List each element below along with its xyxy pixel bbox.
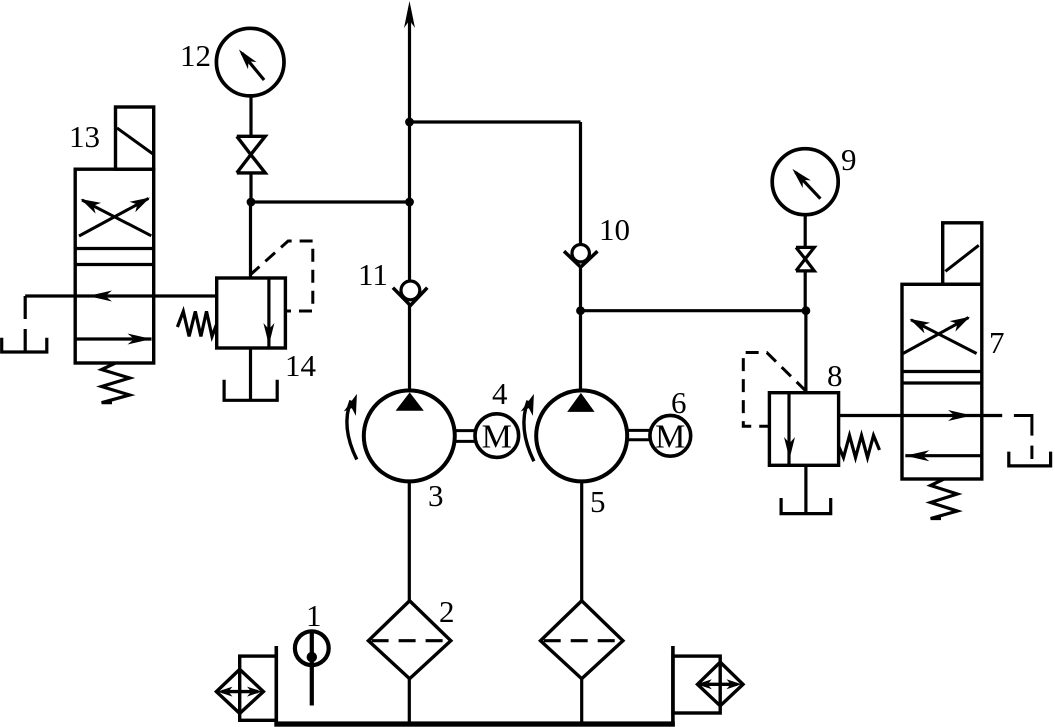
svg-text:1: 1 xyxy=(306,598,322,633)
svg-text:12: 12 xyxy=(180,38,211,73)
svg-text:13: 13 xyxy=(69,119,100,154)
svg-text:2: 2 xyxy=(439,594,455,629)
svg-text:14: 14 xyxy=(285,348,317,383)
svg-text:9: 9 xyxy=(841,142,857,177)
svg-text:11: 11 xyxy=(358,257,388,292)
svg-text:4: 4 xyxy=(492,376,508,411)
svg-text:M: M xyxy=(655,419,685,456)
svg-text:10: 10 xyxy=(599,212,630,247)
svg-text:8: 8 xyxy=(827,358,843,393)
svg-text:5: 5 xyxy=(590,484,606,519)
svg-text:3: 3 xyxy=(428,478,444,513)
svg-text:6: 6 xyxy=(671,385,687,420)
svg-text:7: 7 xyxy=(989,325,1005,360)
svg-text:M: M xyxy=(482,419,512,456)
